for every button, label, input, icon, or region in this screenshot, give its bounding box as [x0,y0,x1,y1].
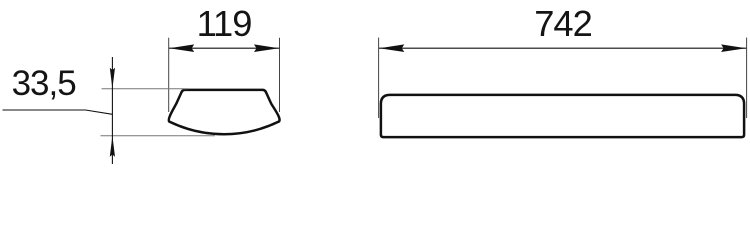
dimension 742: dimension line [379,47,746,49]
dimension 119: right extension line [279,38,281,112]
dimension 119: left extension line [168,38,170,112]
dimension 33,5: lower arrow (points up) [110,136,115,157]
dimension 119: left arrow [169,44,194,52]
dimension 33,5: lower extension line [101,135,216,137]
dimension 119: dimension line [169,47,279,49]
dimension 119: right arrow [254,44,279,52]
dimension 742: right arrow [721,44,746,52]
left view: lens profile outline [169,90,280,134]
dimension 33,5: vertical dimension line [111,57,113,164]
dimension 742: right extension line [746,38,748,118]
right view: bar outline [381,95,744,137]
dimension 742: left extension line [378,38,380,118]
dimension 33,5: leader line [3,110,113,114]
dimension 33,5: upper arrow (points down) [110,68,115,89]
svg-text:742: 742 [534,3,592,44]
svg-text:33,5: 33,5 [12,64,76,103]
svg-text:119: 119 [197,3,252,44]
dimension 33,5: upper extension line [102,88,189,90]
dimension 742: left arrow [379,44,404,52]
